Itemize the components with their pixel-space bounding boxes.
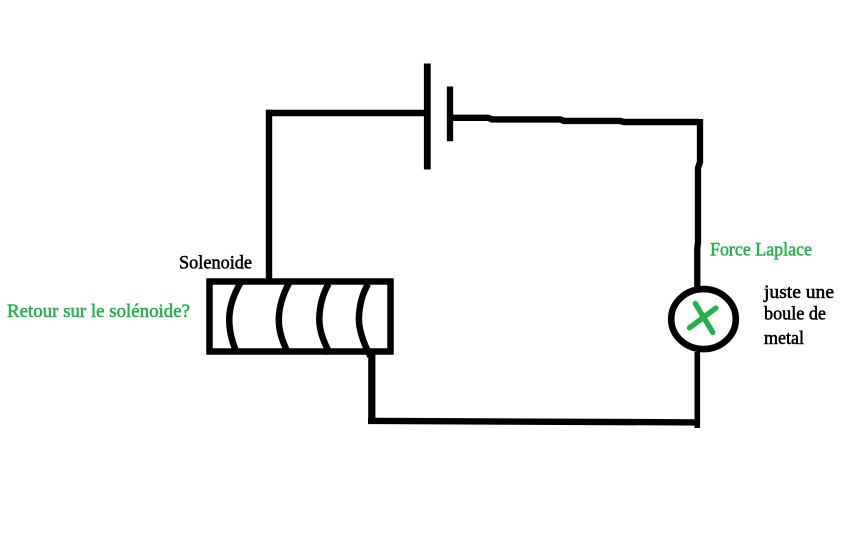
svg-text:Retour sur le solénoide?: Retour sur le solénoide? — [7, 301, 190, 322]
wire W4 right vertical (corner down to metal ball) — [697, 119, 700, 287]
battery B1 negative plate (short) — [447, 87, 453, 142]
svg-text:juste une: juste une — [763, 282, 834, 303]
solenoid L1 body (rectangle) — [210, 282, 391, 352]
svg-text:metal: metal — [764, 328, 804, 349]
metal ball M1 green X stroke 1 — [695, 304, 713, 333]
wire W5 bottom-left vertical (solenoid down to bottom wire) — [368, 353, 375, 423]
solenoid L1 turn 4 (arc) — [359, 284, 371, 357]
battery B1 positive plate (long) — [424, 64, 431, 170]
svg-text:Solenoide: Solenoide — [179, 253, 252, 274]
wire W2 left vertical (corner down to solenoid top) — [266, 110, 272, 283]
wire W6 bottom horizontal — [368, 421, 699, 423]
metal ball M1 green X stroke 2 — [690, 308, 716, 328]
solenoid L1 turn 2 (arc) — [279, 283, 289, 352]
metal ball M1 (circle) — [671, 289, 736, 349]
solenoid L1 turn 1 (arc) — [229, 282, 241, 351]
svg-text:Force Laplace: Force Laplace — [710, 240, 812, 261]
wire W1 top-left horizontal (left corner to battery) — [266, 110, 425, 117]
wire W3 top-right horizontal (battery to right corner) — [450, 118, 699, 122]
svg-text:boule de: boule de — [764, 303, 826, 324]
solenoid L1 turn 3 (arc) — [319, 284, 330, 354]
wire W7 bottom-right vertical (metal ball down to bottom wire) — [694, 352, 700, 428]
